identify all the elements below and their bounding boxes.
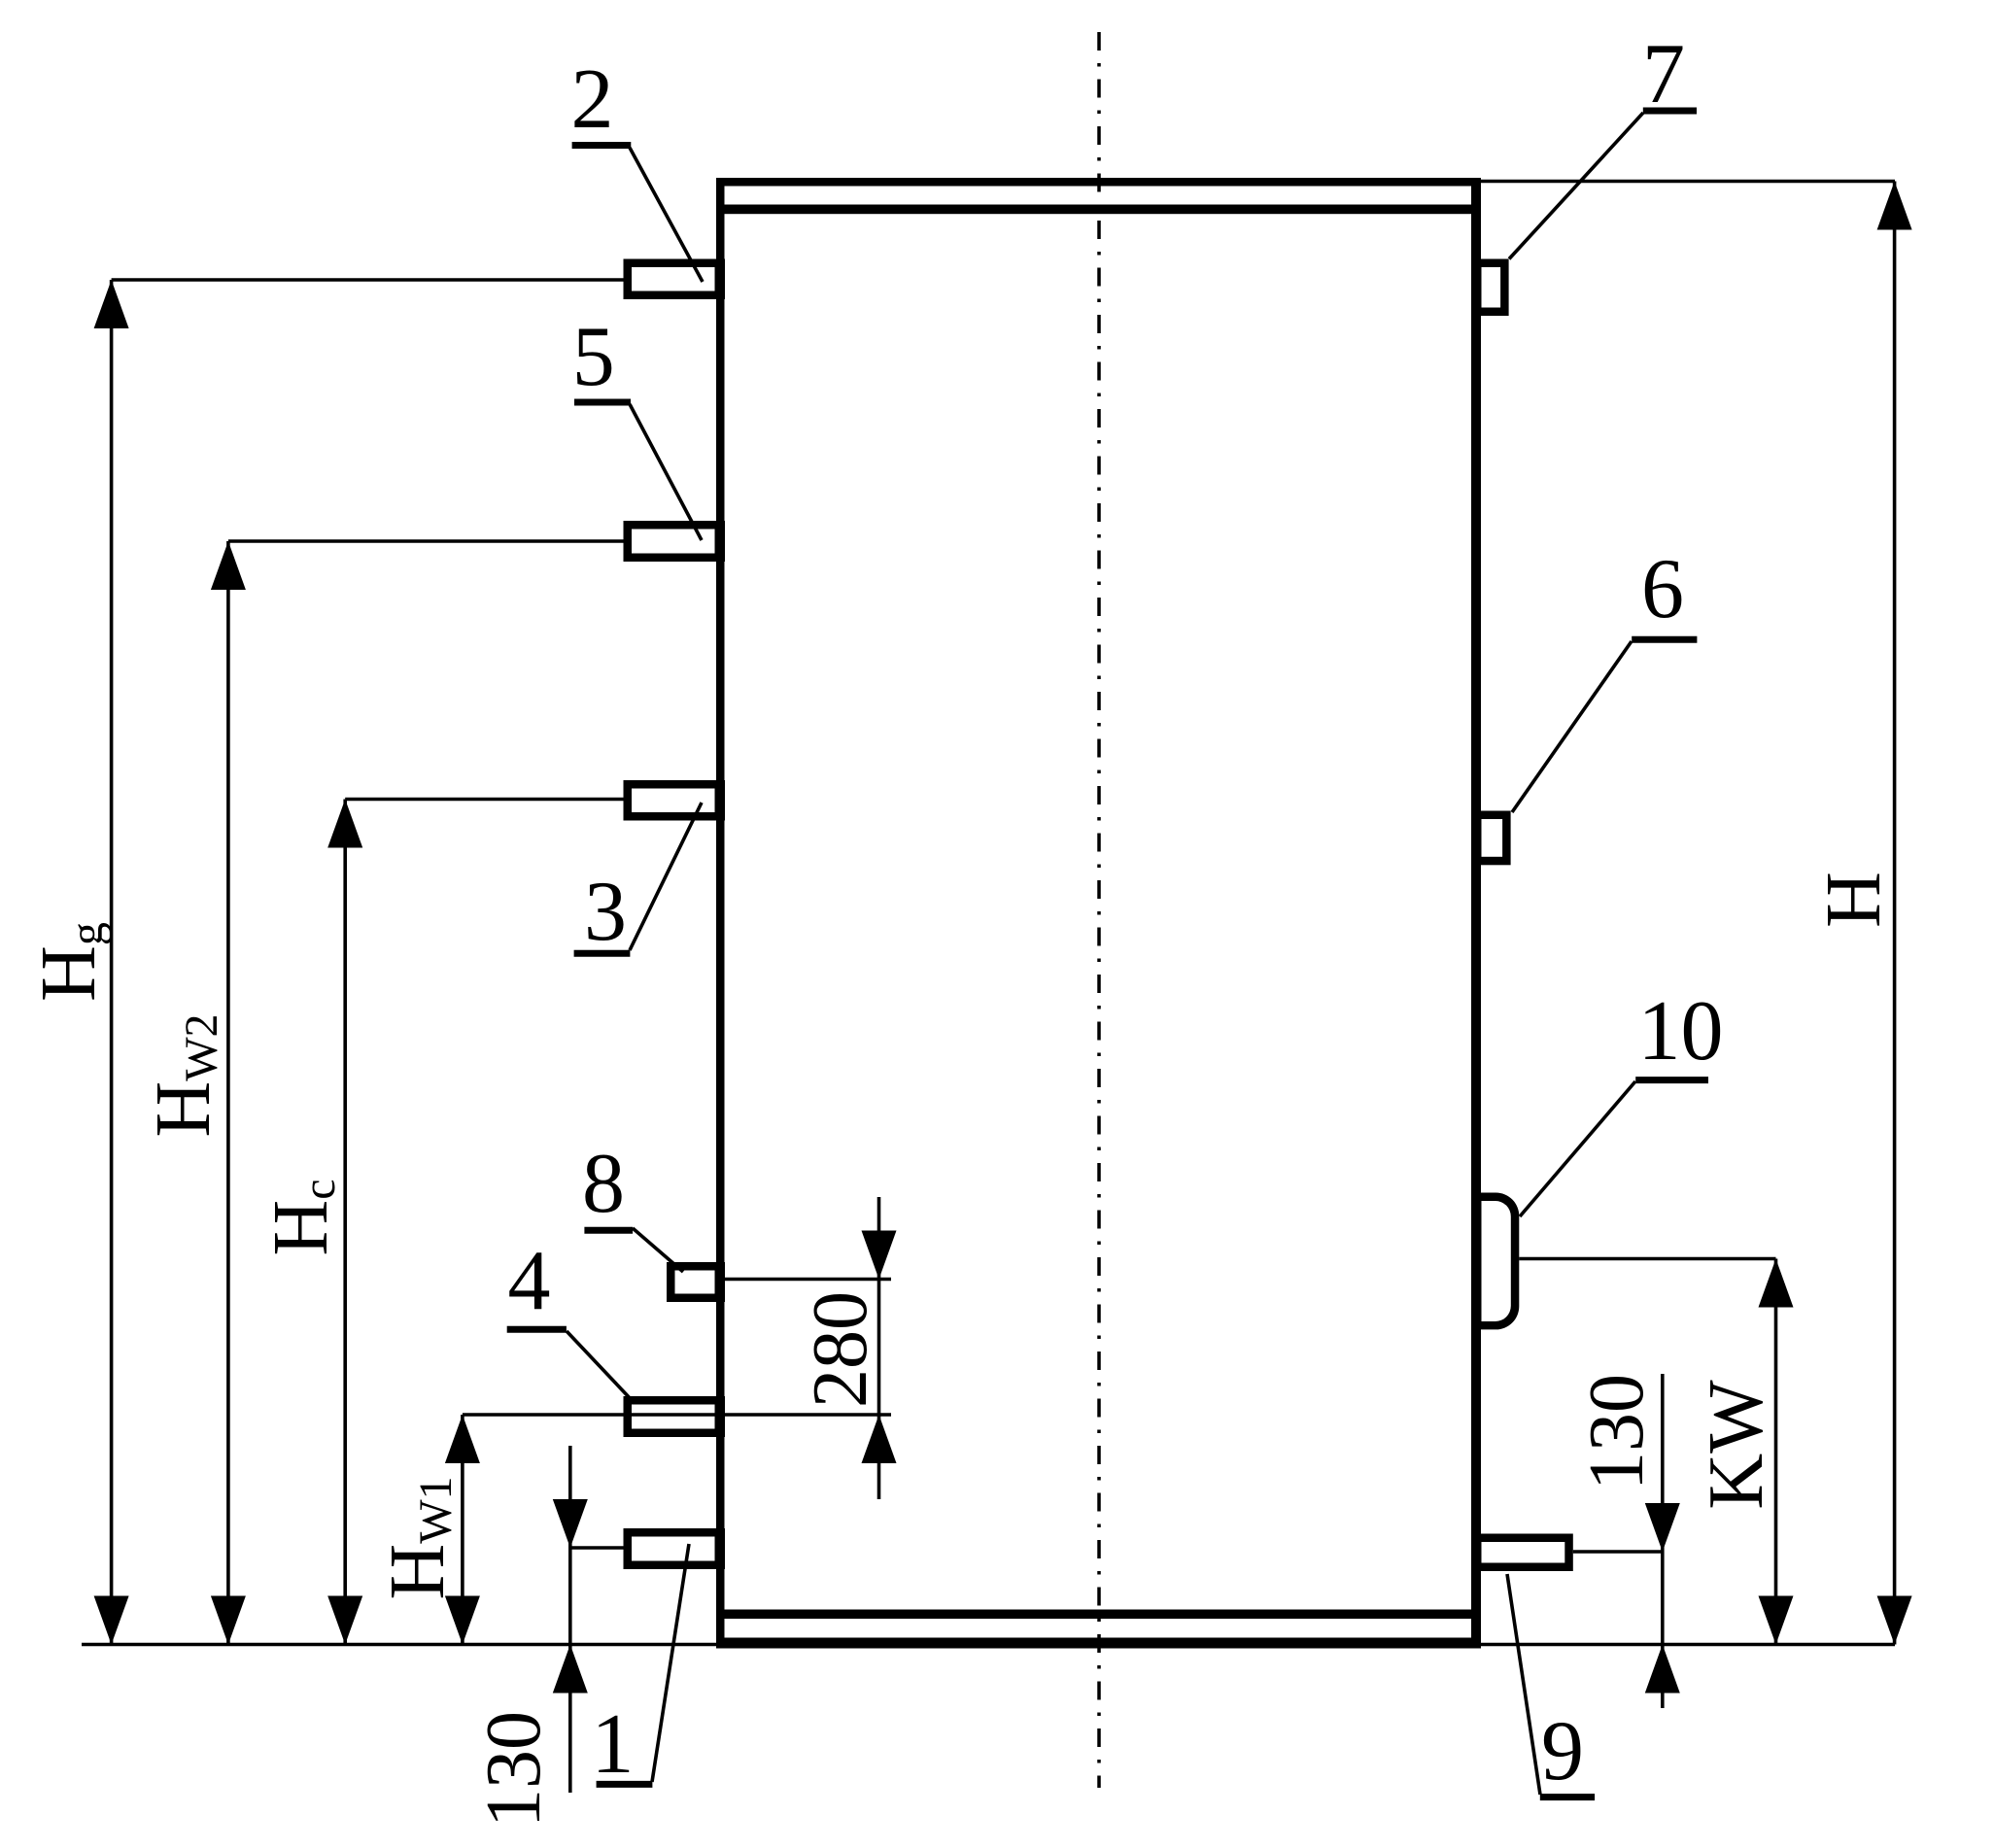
dimension line Hw2: [226, 541, 230, 1645]
label Hw2: [141, 1013, 227, 1137]
arrow H top: [1877, 182, 1912, 230]
label 1 underline: [597, 1781, 653, 1788]
leader 4: [567, 1331, 632, 1400]
dimension line H: [1893, 182, 1897, 1645]
extension line H top (tank top): [1481, 180, 1895, 184]
svg-text:6: 6: [1641, 542, 1684, 636]
arrow 280 top (points down): [862, 1231, 897, 1280]
arrow 130 left lower (points up to baseline): [553, 1645, 588, 1694]
label H right: [1811, 872, 1897, 928]
arrow Hw1 top: [445, 1415, 480, 1463]
arrow 130 right upper (points down to port 9 center): [1645, 1503, 1680, 1552]
svg-text:1: 1: [592, 1697, 635, 1792]
leader 7: [1509, 113, 1643, 259]
extension line Hw1 and 280 bottom (port 4 center): [463, 1413, 891, 1417]
arrow Hc top: [327, 800, 362, 848]
arrow Hw2 top: [211, 541, 246, 590]
label 2 underline: [572, 142, 632, 149]
dimension line Hw1: [461, 1415, 464, 1645]
svg-text:8: 8: [582, 1137, 625, 1231]
dimension line Hc: [343, 800, 347, 1645]
svg-text:130: 130: [471, 1711, 557, 1828]
leader 8: [633, 1228, 683, 1272]
label Hc: [258, 1179, 345, 1255]
port 1: [624, 1528, 726, 1569]
tank right wall: [1471, 178, 1481, 1649]
extension line Hg (port 2 center): [112, 278, 624, 282]
dimension line Hg: [110, 280, 114, 1645]
svg-text:HW1: HW1: [375, 1476, 462, 1599]
leader 5: [630, 404, 702, 540]
dimension line 280: [877, 1197, 881, 1499]
arrow KW top: [1759, 1259, 1794, 1308]
port 4: [624, 1396, 726, 1437]
extension line 280 top (port 8 center): [725, 1278, 891, 1282]
arrow 130 right lower (points up to baseline): [1645, 1645, 1680, 1694]
port 8: [667, 1262, 725, 1302]
leader 10: [1520, 1081, 1635, 1216]
arrow 280 bottom (points up): [862, 1415, 897, 1463]
tank bottom inner line: [725, 1610, 1472, 1620]
dimension line 130 left: [568, 1446, 572, 1793]
label 130 right: [1574, 1374, 1660, 1490]
port 10: [1471, 1193, 1519, 1330]
svg-text:HW2: HW2: [141, 1013, 227, 1137]
label 9 underline: [1540, 1794, 1595, 1800]
label 6 underline: [1632, 636, 1697, 643]
dimension line KW: [1774, 1259, 1778, 1645]
label 280: [798, 1291, 883, 1408]
port 7: [1471, 259, 1509, 317]
svg-text:5: 5: [572, 310, 615, 404]
label Hg: [26, 922, 113, 1002]
svg-text:280: 280: [798, 1291, 883, 1408]
baseline: [82, 1643, 1895, 1647]
label 130 left: [471, 1711, 557, 1828]
arrow Hw2 bottom: [211, 1596, 246, 1645]
svg-text:130: 130: [1574, 1374, 1660, 1490]
arrow Hg top: [94, 280, 129, 328]
svg-text:9: 9: [1541, 1704, 1584, 1798]
extension line KW (port 10 center): [1519, 1257, 1775, 1261]
svg-text:2: 2: [571, 52, 614, 147]
centerline: [1097, 32, 1101, 1788]
svg-text:KW: KW: [1694, 1380, 1779, 1510]
extension line 130 left (port 1 center): [570, 1546, 624, 1550]
svg-text:10: 10: [1638, 984, 1724, 1078]
arrow Hc bottom: [327, 1596, 362, 1645]
arrow Hg bottom: [94, 1596, 129, 1645]
port 6: [1471, 811, 1511, 866]
port 3: [624, 780, 726, 821]
leader 6: [1512, 641, 1632, 812]
leader 1: [652, 1544, 689, 1782]
tank bottom outer line: [716, 1638, 1481, 1649]
arrow Hw1 bottom: [445, 1596, 480, 1645]
arrow KW bottom: [1759, 1596, 1794, 1645]
leader 3: [630, 803, 702, 950]
leader 9: [1507, 1574, 1540, 1795]
tank top outer line: [716, 178, 1481, 187]
label 5 underline: [574, 399, 631, 406]
svg-text:3: 3: [584, 865, 627, 959]
port 2: [624, 259, 726, 300]
label 8 underline: [584, 1227, 633, 1234]
port 5: [624, 521, 726, 562]
svg-text:Hc: Hc: [258, 1179, 345, 1255]
label 4 underline: [507, 1326, 567, 1333]
label 10 underline: [1635, 1077, 1708, 1083]
extension line Hw2 (port 5 center): [228, 539, 624, 543]
port 9: [1471, 1534, 1573, 1572]
label 3 underline: [574, 950, 631, 957]
tank left wall: [716, 178, 725, 1649]
label 7 underline: [1643, 108, 1697, 115]
leader 2: [630, 148, 703, 282]
svg-text:H: H: [1811, 872, 1897, 928]
label KW: [1694, 1380, 1779, 1510]
svg-text:Hg: Hg: [26, 922, 113, 1002]
dimension line 130 right: [1661, 1374, 1665, 1708]
tank top inner line: [725, 205, 1472, 215]
label Hw1: [375, 1476, 462, 1599]
extension line Hc (port 3 center): [345, 798, 623, 802]
svg-text:4: 4: [508, 1234, 551, 1328]
arrow 130 left upper (points down to port 1 center): [553, 1499, 588, 1548]
arrow H bottom: [1877, 1596, 1912, 1645]
svg-text:7: 7: [1642, 27, 1685, 121]
extension line 130 right (port 9 center): [1573, 1550, 1663, 1554]
